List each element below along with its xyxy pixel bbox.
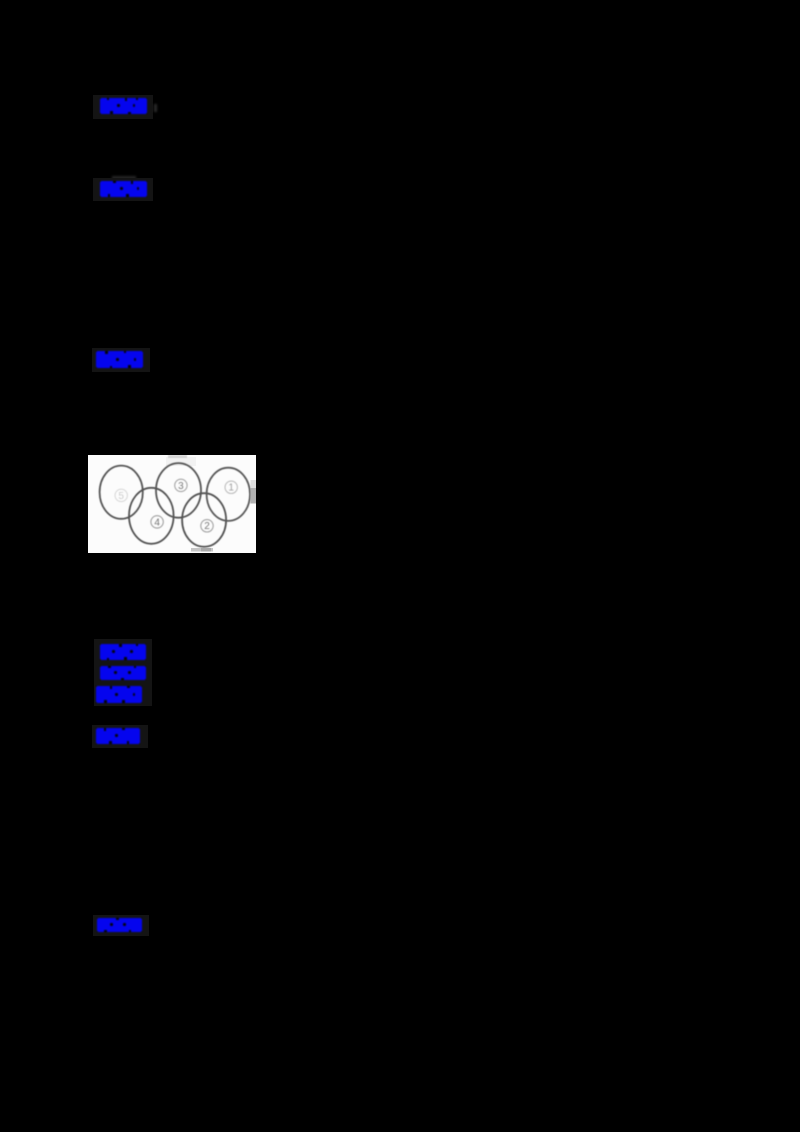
halo around label H bbox=[93, 915, 149, 936]
halo around label B bbox=[93, 178, 153, 201]
dirt smudge top edge bbox=[168, 455, 187, 458]
halo around label G bbox=[92, 725, 148, 748]
svg-text:3: 3 bbox=[178, 481, 184, 492]
link label B bbox=[100, 181, 147, 202]
circled number 1 bbox=[225, 481, 237, 494]
link label A bbox=[100, 98, 147, 119]
link label E bbox=[100, 666, 146, 685]
svg-text:5: 5 bbox=[118, 491, 124, 502]
circled number 3 bbox=[175, 479, 187, 492]
ring 2 (bottom-right ellipse) bbox=[182, 493, 226, 547]
svg-text:2: 2 bbox=[204, 521, 210, 532]
dark speck right of label A bbox=[154, 104, 157, 112]
gray tab on right edge bbox=[251, 480, 257, 488]
halo around label C bbox=[92, 348, 150, 372]
ring 3 (top-middle ellipse) bbox=[156, 463, 201, 518]
circled number 2 bbox=[201, 520, 213, 533]
link label F bbox=[96, 686, 142, 708]
link label H bbox=[97, 918, 142, 937]
dark bump above label B bbox=[112, 176, 136, 182]
circled number 5 bbox=[115, 489, 127, 502]
svg-text:4: 4 bbox=[154, 517, 160, 528]
ring 5 (top-left ellipse) bbox=[100, 466, 143, 519]
halo around label A bbox=[93, 95, 153, 119]
halo around label group D E F bbox=[94, 639, 152, 706]
scanned figure: olympic rings puzzle image bbox=[88, 455, 256, 558]
gray smudge bottom bbox=[191, 548, 213, 552]
circled number 4 bbox=[151, 516, 163, 529]
svg-text:1: 1 bbox=[228, 483, 234, 494]
ring 1 (top-right ellipse) bbox=[207, 468, 250, 521]
ring 4 (bottom-left ellipse) bbox=[129, 488, 174, 544]
link label D bbox=[100, 644, 146, 665]
faint scan shading patch bbox=[166, 457, 196, 466]
link label G bbox=[96, 728, 140, 749]
link label C bbox=[96, 351, 143, 373]
